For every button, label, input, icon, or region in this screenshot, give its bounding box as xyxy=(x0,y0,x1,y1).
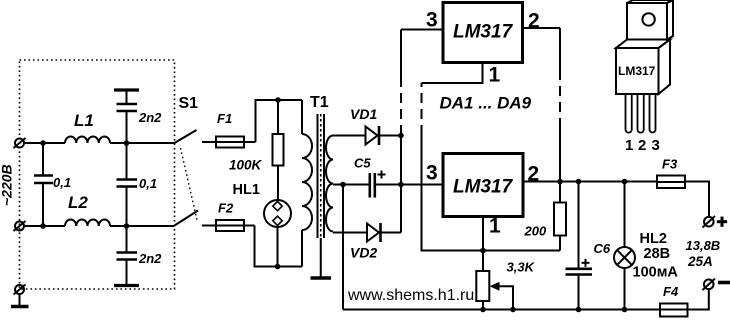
svg-text:100мА: 100мА xyxy=(633,265,679,281)
svg-text:2: 2 xyxy=(528,163,540,186)
svg-text:200: 200 xyxy=(524,224,547,239)
svg-text:100K: 100K xyxy=(229,158,263,173)
svg-text:DA1 ... DA9: DA1 ... DA9 xyxy=(440,94,532,113)
svg-text:1: 1 xyxy=(489,215,501,238)
svg-text:13,8В: 13,8В xyxy=(686,238,721,253)
svg-text:2: 2 xyxy=(638,137,646,154)
svg-text:HL2: HL2 xyxy=(640,231,667,247)
svg-text:25А: 25А xyxy=(687,254,713,269)
svg-text:3: 3 xyxy=(426,162,438,185)
svg-text:C6: C6 xyxy=(594,241,611,256)
svg-text:F2: F2 xyxy=(218,201,234,216)
svg-text:L2: L2 xyxy=(68,193,88,212)
svg-text:1: 1 xyxy=(625,137,633,154)
svg-text:2: 2 xyxy=(528,10,540,33)
svg-text:28В: 28В xyxy=(644,246,671,262)
svg-text:www.shems.h1.ru: www.shems.h1.ru xyxy=(347,287,474,304)
svg-text:3,3K: 3,3K xyxy=(507,260,536,275)
svg-text:1: 1 xyxy=(489,64,501,87)
svg-text:L1: L1 xyxy=(74,111,94,130)
svg-text:VD2: VD2 xyxy=(350,245,377,261)
svg-text:F4: F4 xyxy=(663,284,679,299)
svg-text:F1: F1 xyxy=(217,111,232,126)
svg-text:0,1: 0,1 xyxy=(139,176,157,191)
svg-text:T1: T1 xyxy=(310,94,329,111)
svg-text:~220В: ~220В xyxy=(0,164,15,206)
svg-text:C5: C5 xyxy=(354,156,371,171)
svg-text:LM317: LM317 xyxy=(453,22,514,43)
svg-text:2n2: 2n2 xyxy=(138,251,162,266)
svg-text:2n2: 2n2 xyxy=(138,110,162,125)
svg-text:S1: S1 xyxy=(179,95,199,112)
svg-text:LM317: LM317 xyxy=(618,64,656,78)
svg-text:VD1: VD1 xyxy=(350,106,377,122)
svg-text:HL1: HL1 xyxy=(233,182,260,198)
svg-text:3: 3 xyxy=(652,137,660,154)
svg-text:F3: F3 xyxy=(662,157,678,172)
svg-text:0,1: 0,1 xyxy=(53,175,71,190)
svg-text:LM317: LM317 xyxy=(453,177,514,198)
svg-text:3: 3 xyxy=(426,9,438,32)
